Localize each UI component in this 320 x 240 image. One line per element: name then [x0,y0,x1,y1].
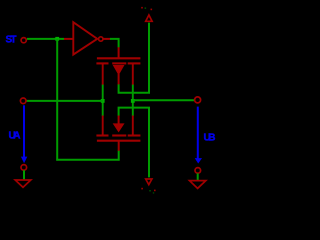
NMOS T2 bulk arrow [113,124,123,132]
wire up to NMOS gate stub [118,150,120,160]
supply arrow -U [146,179,152,185]
PMOS T1 drain stub right [132,64,134,85]
inverter U1 triangle [73,22,97,54]
PMOS T1 gate bar [97,57,140,59]
wire main left horizontal [26,100,103,102]
voltage arrow UA shaft [23,105,25,158]
node junction left column [101,99,105,103]
PMOS T1 gate stub [118,47,120,58]
svg-text:ST: ST [6,34,17,45]
NMOS T2 gate stub [118,141,120,151]
voltage arrow UB head [195,158,202,163]
NMOS T2 bulk lead [118,116,120,125]
terminal lower right [195,168,201,174]
wire ST terminal to junction [27,38,64,40]
wire left column mid (green) [102,85,104,116]
inverter U1 output lead [103,38,110,40]
specks below -U [141,188,143,190]
PMOS T1 bulk lead [118,74,120,85]
wire right column mid (green) [132,85,134,116]
svg-text:UB: UB [204,132,216,143]
inverter U1 input lead [64,38,74,40]
NMOS T2 gate bar [97,140,140,142]
NMOS T2 source stub left [102,116,104,137]
wire bulk to +U rail [119,23,149,93]
node junction on ST wire [55,37,59,41]
wire main right horizontal [133,99,195,101]
wire ST vertical down [56,39,58,161]
ground left [15,180,31,187]
svg-text:UA: UA [9,131,21,142]
terminal node right [195,97,201,103]
wire stub to ground left [23,170,25,180]
wire inverter output to PMOS gate [110,39,119,48]
ground right [190,181,206,189]
terminal lower left [21,165,27,171]
supply arrow +U [146,15,152,21]
PMOS T1 source stub left [102,64,104,85]
wire stub to ground right [197,173,199,180]
wire NMOS bulk to -U rail [119,108,149,178]
voltage arrow UA head [21,157,27,164]
voltage arrow UB shaft [197,107,199,160]
NMOS T2 channel segments [96,134,108,136]
terminal ST [21,38,26,43]
inverter U1 output bubble [99,37,103,41]
PMOS T1 channel segments [96,62,108,64]
node junction right column [131,99,135,103]
PMOS T1 bulk arrow [113,65,123,74]
terminal node left [20,98,26,104]
specks above +U [141,7,143,9]
NMOS T2 drain stub right [132,116,134,137]
wire bottom horizontal to NMOS gate [56,159,119,161]
